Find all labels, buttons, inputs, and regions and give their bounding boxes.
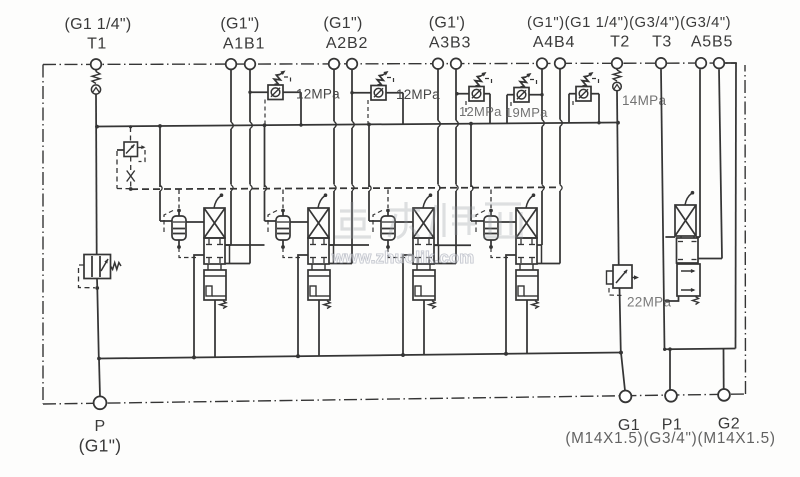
svg-text:(G1"): (G1") bbox=[323, 15, 362, 32]
svg-text:(G1"): (G1") bbox=[79, 436, 122, 456]
svg-text:(G1")(G1 1/4")(G3/4")(G3/4"): (G1")(G1 1/4")(G3/4")(G3/4") bbox=[527, 15, 731, 31]
svg-text:14MPa: 14MPa bbox=[622, 93, 666, 108]
svg-text:12MPa: 12MPa bbox=[396, 87, 440, 102]
svg-text:T1: T1 bbox=[87, 36, 107, 53]
svg-text:A1B1: A1B1 bbox=[223, 35, 265, 52]
svg-text:www.zhuolik.com: www.zhuolik.com bbox=[331, 249, 474, 267]
svg-text:T3: T3 bbox=[652, 34, 672, 51]
svg-text:T2: T2 bbox=[610, 34, 630, 51]
svg-text:A3B3: A3B3 bbox=[429, 35, 471, 52]
svg-text:(G1'): (G1') bbox=[429, 15, 466, 32]
svg-text:P: P bbox=[95, 418, 106, 435]
svg-text:12MPa: 12MPa bbox=[459, 104, 502, 119]
svg-text:(G1 1/4"): (G1 1/4") bbox=[64, 16, 131, 33]
svg-text:(M14X1.5)(G3/4")(M14X1.5): (M14X1.5)(G3/4")(M14X1.5) bbox=[565, 430, 775, 447]
svg-text:(G1"): (G1") bbox=[220, 16, 259, 33]
svg-text:A4B4: A4B4 bbox=[533, 34, 575, 51]
svg-text:12MPa: 12MPa bbox=[296, 87, 340, 102]
svg-text:19MPa: 19MPa bbox=[505, 105, 548, 120]
svg-text:A2B2: A2B2 bbox=[326, 35, 368, 52]
svg-text:A5B5: A5B5 bbox=[691, 33, 733, 50]
